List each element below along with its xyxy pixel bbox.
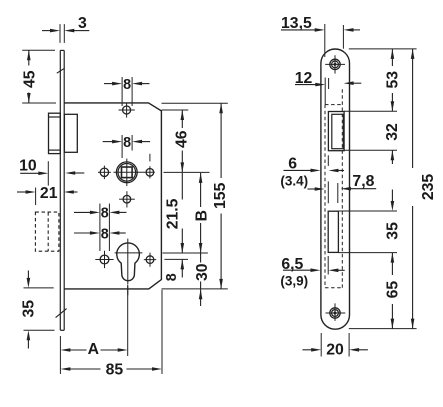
svg-text:8: 8 bbox=[164, 273, 180, 281]
svg-text:46: 46 bbox=[174, 130, 191, 148]
svg-text:B: B bbox=[193, 210, 210, 221]
svg-text:30: 30 bbox=[194, 263, 211, 281]
svg-text:35: 35 bbox=[385, 222, 402, 240]
svg-text:21.5: 21.5 bbox=[164, 198, 181, 229]
svg-text:21: 21 bbox=[40, 185, 58, 202]
svg-text:A: A bbox=[88, 341, 99, 358]
svg-text:85: 85 bbox=[106, 361, 124, 378]
svg-text:10: 10 bbox=[19, 158, 37, 175]
svg-text:8: 8 bbox=[101, 226, 109, 242]
svg-text:35: 35 bbox=[21, 300, 38, 318]
svg-text:20: 20 bbox=[326, 342, 344, 359]
svg-text:65: 65 bbox=[385, 281, 402, 299]
svg-text:8: 8 bbox=[123, 77, 131, 93]
svg-text:7,8: 7,8 bbox=[352, 173, 374, 190]
svg-text:53: 53 bbox=[385, 71, 402, 89]
svg-text:45: 45 bbox=[21, 70, 38, 88]
svg-text:155: 155 bbox=[212, 182, 229, 209]
svg-text:(3.4): (3.4) bbox=[280, 174, 308, 189]
svg-text:8: 8 bbox=[101, 206, 109, 222]
svg-text:(3,9): (3,9) bbox=[280, 274, 308, 289]
svg-text:8: 8 bbox=[123, 135, 131, 151]
svg-text:3: 3 bbox=[78, 15, 87, 32]
svg-text:13,5: 13,5 bbox=[281, 15, 312, 32]
svg-text:32: 32 bbox=[384, 123, 401, 141]
svg-text:235: 235 bbox=[420, 174, 437, 201]
